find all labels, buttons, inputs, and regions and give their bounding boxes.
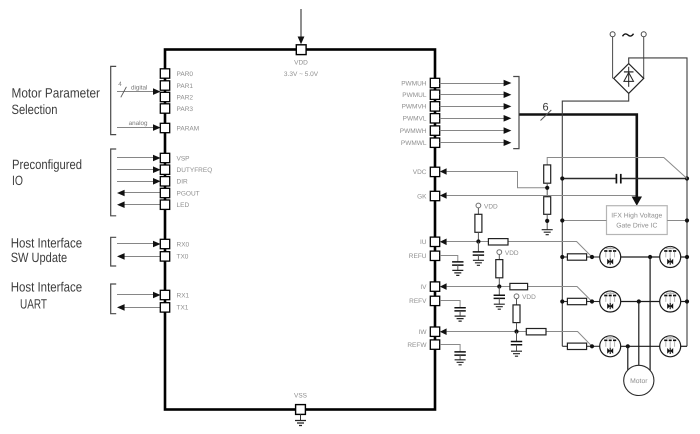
svg-text:VSP: VSP (177, 155, 190, 162)
pin VDD (284, 45, 319, 78)
wire PWMVL arrow (440, 115, 512, 122)
pin VSS (294, 393, 308, 415)
svg-text:PAR1: PAR1 (177, 83, 194, 90)
pin LED (160, 200, 189, 209)
svg-text:REFV: REFV (409, 298, 427, 305)
resistor pullup W (513, 305, 520, 332)
svg-text:DIR: DIR (177, 179, 189, 186)
pin RX1 (160, 290, 189, 299)
wire row3 to right rail (681, 345, 687, 347)
svg-text:analog: analog (129, 120, 148, 127)
pin PWMUH (401, 78, 439, 87)
wire VSP input arrow (117, 155, 161, 162)
resistor pullup V (496, 260, 503, 287)
pin PARAM (160, 123, 199, 132)
ground REFW (455, 360, 466, 365)
resistor divider lower (544, 197, 551, 215)
svg-text:TX0: TX0 (177, 254, 189, 261)
wire LED output arrow (117, 201, 160, 208)
wire row1 phase segment (621, 255, 660, 259)
label Host Interface UART (11, 280, 83, 312)
wire PWMUH arrow (440, 80, 512, 87)
svg-text:3.3V ~ 5.0V: 3.3V ~ 5.0V (284, 71, 319, 78)
svg-text:VDC: VDC (413, 169, 427, 176)
transistor Q2 low side U (660, 247, 681, 268)
svg-text:4: 4 (118, 81, 122, 88)
svg-text:SW Update: SW Update (11, 250, 67, 265)
pin RX0 (160, 239, 189, 248)
label Host Interface SW Update (11, 236, 83, 265)
node AC terminal N (641, 32, 646, 37)
pin GK (417, 191, 440, 200)
resistor series IU (488, 239, 508, 245)
svg-text:digital: digital (131, 84, 147, 91)
pin PWMVL (403, 114, 440, 123)
wire 6-signal gate bus (519, 102, 642, 206)
svg-text:IO: IO (12, 173, 23, 188)
capacitor filter U (473, 242, 484, 260)
wire PWMVH arrow (440, 103, 512, 110)
transistor Q6 low side W (660, 336, 681, 357)
pin PAR0 (160, 69, 193, 78)
wire PWMWH arrow (440, 127, 512, 134)
wire gate driver right supply (667, 218, 689, 222)
ground filter V (494, 304, 505, 309)
node divider bottom (545, 214, 549, 229)
pin PWMUL (402, 90, 439, 99)
pin PAR3 (160, 104, 193, 113)
wire REFV net (440, 301, 460, 308)
pin VDC (413, 167, 440, 176)
pin REFU (409, 251, 440, 260)
wire DC plus rail right (629, 58, 687, 346)
wire AC N to bridge (643, 37, 645, 79)
svg-text:PWMVH: PWMVH (402, 104, 427, 111)
node junction dots DC bus (560, 176, 689, 180)
transistor Q1 high side U (600, 247, 621, 268)
svg-text:Host Interface: Host Interface (11, 280, 83, 295)
MCU chip body U1 (165, 50, 435, 410)
pin PWMWL (401, 138, 440, 147)
label AC tilde (623, 34, 634, 37)
bracket UART group (111, 284, 117, 314)
transistor Q3 high side V (600, 291, 621, 312)
wire DUTYFREQ input arrow (117, 166, 161, 173)
wire motor phase V (638, 302, 640, 366)
svg-text:PAR0: PAR0 (177, 71, 194, 78)
svg-text:PWMWH: PWMWH (400, 128, 427, 135)
pin DIR (160, 177, 188, 186)
svg-text:DUTYFREQ: DUTYFREQ (177, 167, 213, 174)
capacitor filter W (511, 332, 522, 352)
svg-text:VDD: VDD (522, 294, 536, 301)
wire PGOUT output arrow (117, 190, 160, 197)
svg-text:Gate Drive IC: Gate Drive IC (616, 223, 657, 230)
wire VDC sense net (440, 158, 687, 188)
svg-text:IU: IU (420, 239, 427, 246)
pin TX1 (160, 303, 189, 312)
transistor Q4 low side V (660, 291, 681, 312)
svg-text:VSS: VSS (294, 393, 308, 400)
wire IW sense net (440, 328, 592, 346)
motor M1 (624, 365, 654, 395)
label Preconfigured IO (12, 157, 82, 188)
wire VDD supply arrow (298, 9, 305, 44)
capacitor filter V (494, 287, 505, 305)
resistor gate row3 (562, 343, 600, 349)
svg-text:PGOUT: PGOUT (177, 190, 200, 197)
wire PWMUL arrow (440, 91, 512, 98)
svg-text:LED: LED (177, 202, 190, 209)
svg-text:IW: IW (419, 329, 428, 336)
capacitor REFU (452, 262, 463, 271)
svg-text:REFW: REFW (407, 342, 427, 349)
node divider mid (545, 183, 549, 197)
svg-text:PAR2: PAR2 (177, 94, 194, 101)
bracket SW update group (111, 237, 117, 266)
resistor divider upper (544, 165, 551, 183)
capacitor DC bus (562, 174, 687, 184)
node VDD pullup W (514, 294, 536, 305)
svg-text:Preconfigured: Preconfigured (12, 157, 82, 172)
wire REFW net (440, 345, 460, 352)
wire AC L to bridge (612, 37, 614, 79)
wire IU sense net (440, 239, 592, 258)
capacitor REFW (454, 352, 465, 360)
pin IV (420, 282, 439, 291)
resistor pullup U (475, 214, 482, 242)
ground at VSS (295, 414, 306, 425)
wire DC minus rail left (562, 93, 628, 346)
wire motor phase U (649, 257, 651, 371)
pin DUTYFREQ (160, 165, 212, 174)
wire DIR input arrow (117, 178, 161, 185)
wire motor phase W (627, 346, 629, 371)
node VDD pullup U (476, 203, 498, 214)
wire gate driver left supply (560, 218, 606, 222)
pin VSP (160, 153, 189, 162)
wire row2 phase segment (621, 299, 660, 303)
op-amp gate driver box IFX (607, 206, 668, 235)
svg-text:PARAM: PARAM (177, 125, 200, 132)
svg-text:Selection: Selection (12, 102, 58, 117)
svg-text:Motor: Motor (630, 378, 648, 385)
transistor Q5 high side W (600, 336, 621, 357)
pin REFV (409, 296, 440, 305)
ground divider (542, 230, 553, 235)
capacitor REFV (454, 308, 465, 316)
resistor series IV (510, 283, 528, 289)
ground filter W (511, 351, 522, 356)
wire analog arrow (117, 120, 161, 131)
wire REFU net (440, 256, 458, 262)
bracket motor parameter group (111, 66, 117, 134)
wire row2 to right rail (681, 299, 689, 303)
bracket preconfigured IO group (111, 149, 117, 216)
label Motor Parameter Selection (12, 86, 101, 117)
svg-text:GK: GK (417, 193, 427, 200)
pin IU (420, 237, 440, 246)
svg-text:VDD: VDD (484, 203, 498, 210)
wire RX1 input arrow (117, 292, 161, 299)
wire IV sense net (440, 283, 592, 301)
node AC terminal L (610, 32, 615, 37)
pin IW (419, 327, 440, 336)
pin PWMVH (402, 102, 440, 111)
pin REFW (407, 340, 439, 349)
node VDD pullup V (497, 250, 519, 260)
svg-text:PWMWL: PWMWL (401, 140, 427, 147)
svg-text:TX1: TX1 (177, 305, 189, 312)
svg-text:RX0: RX0 (177, 241, 190, 248)
wire TX1 output arrow (117, 304, 160, 311)
pin PAR1 (160, 81, 193, 90)
wire row3 phase segment (621, 344, 660, 348)
wire digital bus arrow (117, 81, 161, 97)
svg-text:REFU: REFU (409, 253, 427, 260)
wire RX0 input arrow (117, 241, 161, 248)
resistor gate row2 (560, 298, 600, 304)
wire GK net (440, 192, 636, 199)
svg-text:RX1: RX1 (177, 292, 190, 299)
svg-text:IFX High Voltage: IFX High Voltage (611, 213, 662, 220)
svg-text:Motor Parameter: Motor Parameter (12, 86, 101, 101)
ground filter U (473, 260, 484, 265)
svg-text:Host Interface: Host Interface (11, 236, 83, 251)
svg-text:6: 6 (543, 102, 549, 114)
svg-text:PWMUL: PWMUL (402, 92, 427, 99)
resistor series IW (526, 329, 546, 335)
wire PWMWL arrow (440, 139, 512, 146)
svg-text:PAR3: PAR3 (177, 106, 194, 113)
pin PWMWH (400, 126, 440, 135)
ground REFU (452, 270, 463, 275)
bracket PWM bus group (513, 77, 519, 149)
svg-text:PWMUH: PWMUH (401, 80, 427, 87)
wire TX0 output arrow (117, 253, 160, 260)
svg-text:VDD: VDD (294, 60, 308, 67)
svg-text:PWMVL: PWMVL (403, 116, 427, 123)
svg-text:UART: UART (20, 297, 47, 312)
bridge rectifier D1 (614, 64, 644, 94)
ground REFV (455, 316, 466, 321)
pin PAR2 (160, 92, 193, 101)
wire row1 to right rail (681, 255, 689, 259)
pin PGOUT (160, 188, 199, 197)
svg-text:IV: IV (420, 284, 427, 291)
resistor gate row1 (560, 254, 600, 260)
svg-text:VDD: VDD (505, 250, 519, 257)
pin TX0 (160, 252, 189, 261)
